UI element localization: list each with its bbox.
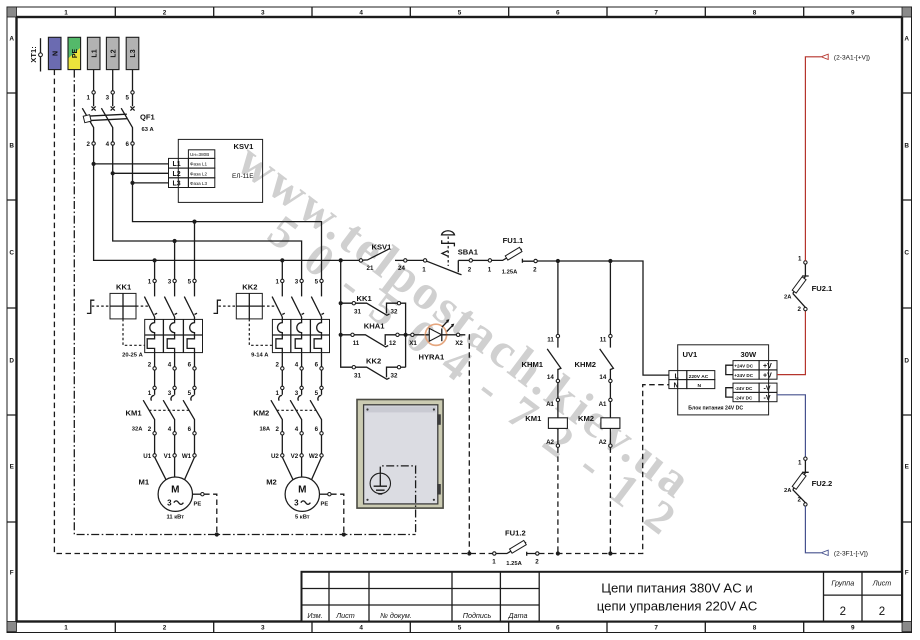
- svg-text:1: 1: [64, 625, 68, 632]
- svg-text:+24V DC: +24V DC: [734, 373, 753, 378]
- svg-text:M2: M2: [266, 478, 277, 487]
- svg-text:HYRA1: HYRA1: [419, 352, 446, 361]
- frame zone dividers bottom band: [115, 622, 803, 633]
- svg-text:4: 4: [295, 426, 299, 433]
- svg-text:D: D: [9, 358, 14, 365]
- KK1 trip lever symbol: [87, 300, 149, 313]
- fuse FU2.2: [784, 457, 832, 506]
- relay contact KHA1 11-12: [351, 294, 411, 366]
- wire QF1 pole2 to KSV1 L2 and L2 bus: [113, 145, 302, 280]
- svg-text:4: 4: [359, 10, 363, 17]
- svg-text:2A: 2A: [784, 294, 792, 300]
- svg-text:L1: L1: [173, 161, 181, 168]
- svg-text:30W: 30W: [741, 350, 757, 359]
- relay contact KHM2 11-14: [575, 263, 614, 382]
- svg-text:L3: L3: [130, 49, 137, 57]
- svg-text:1: 1: [798, 256, 802, 263]
- svg-text:1.25A: 1.25A: [506, 561, 522, 567]
- svg-text:V2: V2: [291, 453, 299, 460]
- svg-text:KSV1: KSV1: [234, 142, 255, 151]
- svg-text:11 кВт: 11 кВт: [167, 515, 185, 521]
- frame zone letters right: [904, 36, 909, 577]
- svg-text:63 А: 63 А: [142, 127, 155, 133]
- svg-text:E: E: [10, 464, 15, 471]
- svg-text:5: 5: [188, 390, 192, 397]
- svg-text:7: 7: [654, 10, 658, 17]
- circuit breaker QF1: [82, 91, 155, 148]
- motor M1 PE terminal: [193, 493, 219, 537]
- junction dots on QF1 poles at KSV1 taps: [92, 162, 135, 185]
- svg-text:2: 2: [468, 266, 472, 273]
- svg-text:Подпись: Подпись: [463, 611, 492, 620]
- svg-text:Лист: Лист: [872, 579, 892, 588]
- svg-text:KHA1: KHA1: [364, 321, 385, 330]
- wire L1 from terminal to QF1: [93, 70, 95, 91]
- svg-text:12: 12: [389, 340, 396, 347]
- svg-text:F: F: [905, 570, 909, 577]
- svg-text:1: 1: [275, 278, 279, 285]
- junction dots on N bus: [467, 551, 612, 555]
- voltage relay KSV1 box: [169, 139, 263, 202]
- relay contact KK2 31-32: [352, 366, 406, 380]
- svg-text:1: 1: [64, 10, 68, 17]
- KK1 reference label: [116, 282, 132, 291]
- svg-text:M1: M1: [139, 478, 150, 487]
- svg-text:PE: PE: [72, 49, 79, 59]
- svg-text:FU1.2: FU1.2: [505, 528, 526, 537]
- contactor KM2: [253, 386, 323, 454]
- wire lamp branch left bus: [341, 260, 352, 367]
- svg-text:KK1: KK1: [357, 294, 373, 303]
- svg-text:2A: 2A: [784, 488, 792, 494]
- wire PE dash-dot vertical and bottom bus: [74, 70, 415, 535]
- terminal L1: [87, 37, 100, 69]
- watermark line 2: [259, 205, 703, 557]
- contactor coil KM1: [525, 383, 567, 554]
- svg-text:KHM2: KHM2: [575, 360, 597, 369]
- svg-text:5: 5: [188, 278, 192, 285]
- svg-text:14: 14: [599, 374, 606, 381]
- svg-text:5: 5: [458, 625, 462, 632]
- svg-text:X2: X2: [455, 340, 463, 347]
- wire QF1 pole3 to KSV1 L3 and L3 bus: [133, 145, 322, 280]
- svg-text:31: 31: [354, 308, 361, 315]
- terminal N: [48, 37, 61, 69]
- svg-text:6: 6: [556, 10, 560, 17]
- frame zone letters left: [9, 36, 14, 577]
- svg-text:3: 3: [168, 278, 172, 285]
- power supply UV1: [669, 345, 777, 415]
- cabinet earth symbol: [370, 473, 390, 494]
- svg-text:11: 11: [547, 336, 554, 343]
- svg-text:18A: 18A: [259, 426, 270, 432]
- svg-text:32A: 32A: [132, 426, 143, 432]
- svg-text:B: B: [904, 143, 909, 150]
- svg-text:1: 1: [798, 459, 802, 466]
- svg-text:-V: -V: [764, 395, 771, 402]
- svg-text:2: 2: [798, 306, 802, 313]
- svg-text:L3: L3: [173, 181, 181, 188]
- svg-text:1: 1: [87, 95, 91, 102]
- terminal L3: [126, 37, 139, 69]
- svg-text:C: C: [904, 250, 909, 257]
- svg-text:X1: X1: [409, 340, 417, 347]
- svg-text:3: 3: [168, 390, 172, 397]
- svg-text:№ докум.: № докум.: [380, 611, 412, 620]
- title block document title: [597, 581, 758, 614]
- svg-text:A1: A1: [599, 401, 607, 408]
- svg-text:SBA1: SBA1: [458, 248, 479, 257]
- svg-text:KHM1: KHM1: [522, 360, 544, 369]
- svg-text:6: 6: [556, 625, 560, 632]
- terminal PE: [68, 37, 81, 69]
- svg-text:1.25A: 1.25A: [502, 270, 518, 276]
- svg-text:1: 1: [275, 390, 279, 397]
- svg-text:KM1: KM1: [525, 414, 542, 423]
- svg-text:W1: W1: [182, 453, 192, 460]
- svg-text:5: 5: [315, 278, 319, 285]
- pushbutton SBA1: [407, 231, 479, 275]
- svg-text:F: F: [10, 570, 14, 577]
- svg-text:3: 3: [167, 499, 172, 508]
- svg-text:5 кВт: 5 кВт: [295, 515, 310, 521]
- svg-text:11: 11: [353, 340, 360, 347]
- svg-text:6: 6: [315, 426, 319, 433]
- svg-text:2: 2: [275, 362, 279, 369]
- title block sheet group cells: [831, 579, 891, 619]
- svg-text:-24V DC: -24V DC: [735, 395, 753, 400]
- junction dots on control bus: [556, 259, 613, 263]
- wire FU2.1 to sheet reference red: [805, 57, 821, 261]
- svg-text:FU2.1: FU2.1: [812, 284, 833, 293]
- wire X2 to N bus dashed: [460, 335, 470, 554]
- svg-text:1: 1: [488, 266, 492, 273]
- thermal breaker KK1: [122, 278, 202, 386]
- svg-text:KK2: KK2: [366, 357, 381, 366]
- svg-text:Фаза L1: Фаза L1: [190, 162, 207, 167]
- svg-text:цепи управления 220V AC: цепи управления 220V AC: [597, 599, 758, 614]
- svg-text:KK1: KK1: [116, 282, 132, 291]
- sheet reference arrow -V: [821, 550, 868, 557]
- KK1 cross box symbol: [110, 293, 145, 345]
- KK2 cross box symbol: [236, 293, 272, 345]
- svg-text:N: N: [698, 383, 702, 389]
- svg-text:8: 8: [753, 10, 757, 17]
- svg-text:3: 3: [295, 390, 299, 397]
- svg-text:21: 21: [367, 265, 374, 272]
- wire -V to FU2.2 blue: [777, 395, 805, 457]
- svg-text:20-25 А: 20-25 А: [122, 353, 143, 359]
- motor M1: [139, 453, 197, 521]
- svg-text:3: 3: [294, 499, 299, 508]
- svg-text:4: 4: [168, 362, 172, 369]
- svg-text:FU2.2: FU2.2: [812, 479, 833, 488]
- svg-text:3: 3: [261, 625, 265, 632]
- thermal breaker KK2: [251, 278, 329, 386]
- svg-text:KSV1: KSV1: [372, 243, 393, 252]
- svg-text:M: M: [171, 484, 179, 495]
- svg-text:4: 4: [168, 426, 172, 433]
- svg-text:-24V DC: -24V DC: [735, 386, 753, 391]
- svg-text:7: 7: [654, 625, 658, 632]
- svg-text:B: B: [9, 143, 14, 150]
- svg-text:+V: +V: [763, 363, 772, 370]
- svg-text:A: A: [9, 36, 14, 43]
- svg-text:2: 2: [840, 606, 846, 618]
- svg-text:(2-3F1-[-V]): (2-3F1-[-V]): [834, 551, 868, 558]
- svg-text:L1: L1: [91, 49, 98, 57]
- fuse FU1.2: [492, 528, 539, 567]
- svg-text:32: 32: [391, 308, 398, 315]
- contactor KM1: [126, 386, 197, 454]
- svg-text:14: 14: [547, 374, 554, 381]
- svg-text:(2-3A1-[+V]): (2-3A1-[+V]): [834, 55, 870, 62]
- svg-text:M: M: [298, 484, 306, 495]
- terminal L2: [106, 37, 119, 69]
- svg-text:V1: V1: [164, 453, 172, 460]
- frame zone dividers left band: [7, 93, 17, 522]
- svg-text:Uн=380В: Uн=380В: [190, 152, 209, 157]
- motor M2 PE terminal: [320, 493, 346, 537]
- svg-text:1: 1: [492, 559, 496, 566]
- svg-text:ЕЛ-11Е: ЕЛ-11Е: [232, 173, 253, 180]
- svg-text:E: E: [905, 464, 910, 471]
- svg-text:Изм.: Изм.: [307, 611, 322, 620]
- svg-text:W2: W2: [309, 453, 319, 460]
- svg-text:A: A: [904, 36, 909, 43]
- svg-text:-V: -V: [764, 386, 771, 393]
- wire drops from buses to KK1 poles: [155, 222, 195, 280]
- svg-text:9-14 А: 9-14 А: [251, 353, 269, 359]
- svg-text:3: 3: [261, 10, 265, 17]
- wire +V to FU2.1 red: [777, 311, 805, 375]
- frame zone dividers top band: [115, 7, 803, 17]
- svg-text:D: D: [904, 358, 909, 365]
- svg-text:2: 2: [148, 362, 152, 369]
- svg-text:Цепи питания 380V AC и: Цепи питания 380V AC и: [601, 581, 753, 596]
- svg-text:32: 32: [391, 372, 398, 379]
- svg-text:PE: PE: [194, 501, 202, 507]
- svg-text:5: 5: [315, 390, 319, 397]
- junction dots lamp branch: [339, 301, 408, 337]
- svg-text:N: N: [674, 382, 679, 389]
- svg-text:Группа: Группа: [831, 579, 854, 588]
- svg-text:Дата: Дата: [508, 611, 528, 620]
- fuse FU2.1: [784, 256, 833, 313]
- svg-text:KM2: KM2: [253, 408, 269, 417]
- svg-text:8: 8: [753, 625, 757, 632]
- frame zone numbers bottom: [64, 625, 855, 632]
- svg-text:2: 2: [163, 625, 167, 632]
- title block frame: [302, 572, 903, 622]
- svg-text:A2: A2: [599, 439, 607, 446]
- svg-text:2: 2: [535, 559, 539, 566]
- svg-text:UV1: UV1: [683, 350, 699, 359]
- svg-text:PE: PE: [321, 501, 329, 507]
- svg-text:U1: U1: [143, 453, 151, 460]
- svg-text:2: 2: [533, 266, 537, 273]
- wire QF1 pole1 to KSV1 L1 and L1 bus: [94, 145, 360, 260]
- svg-text:KM2: KM2: [578, 414, 594, 423]
- svg-text:2: 2: [87, 141, 91, 148]
- contactor coil KM2: [578, 383, 620, 554]
- svg-text:A2: A2: [546, 439, 554, 446]
- wire L3 from terminal to QF1: [132, 70, 134, 91]
- terminal strip label XT1: [29, 38, 43, 71]
- svg-text:KK2: KK2: [242, 282, 257, 291]
- svg-text:2: 2: [148, 426, 152, 433]
- svg-text:+V: +V: [763, 372, 772, 379]
- svg-text:+24V DC: +24V DC: [734, 364, 753, 369]
- title block revision row labels: [307, 611, 527, 620]
- svg-text:Лист: Лист: [335, 611, 355, 620]
- svg-text:1: 1: [148, 390, 152, 397]
- svg-text:L2: L2: [110, 49, 117, 57]
- frame zone numbers top: [64, 10, 855, 17]
- watermark line 1: [227, 132, 703, 510]
- relay contact KK1 31-32: [352, 302, 406, 368]
- svg-text:3: 3: [295, 278, 299, 285]
- relay contact KHM1 11-14: [522, 263, 561, 382]
- svg-text:2: 2: [163, 10, 167, 17]
- KK2 trip lever symbol: [214, 300, 277, 313]
- svg-text:5: 5: [125, 95, 129, 102]
- svg-text:N: N: [52, 51, 59, 56]
- svg-text:L2: L2: [173, 171, 181, 178]
- svg-text:6: 6: [188, 362, 192, 369]
- wire FU2.2 to sheet reference blue: [805, 506, 821, 553]
- svg-text:2: 2: [275, 426, 279, 433]
- svg-text:3: 3: [106, 95, 110, 102]
- svg-text:Фаза L2: Фаза L2: [190, 171, 207, 176]
- svg-text:5: 5: [458, 10, 462, 17]
- svg-text:220V AC: 220V AC: [689, 374, 709, 380]
- svg-text:4: 4: [359, 625, 363, 632]
- svg-text:Блок питания 24V DC: Блок питания 24V DC: [688, 406, 743, 412]
- fuse FU1.1: [473, 236, 669, 375]
- svg-text:9: 9: [851, 625, 855, 632]
- svg-text:Фаза L3: Фаза L3: [190, 181, 207, 186]
- wire N bus to UV1: [539, 385, 669, 554]
- svg-text:6: 6: [125, 141, 129, 148]
- svg-text:6: 6: [188, 426, 192, 433]
- svg-text:C: C: [9, 250, 14, 257]
- svg-text:A1: A1: [546, 401, 554, 408]
- svg-text:2: 2: [798, 497, 802, 504]
- frame zone dividers right band: [902, 93, 912, 522]
- motor M2: [266, 453, 323, 521]
- svg-text:2: 2: [879, 606, 885, 618]
- svg-text:KM1: KM1: [126, 408, 143, 417]
- svg-text:1: 1: [148, 278, 152, 285]
- junction dots on distribution buses: [153, 220, 343, 263]
- svg-text:FU1.1: FU1.1: [503, 236, 524, 245]
- wire L2 from terminal to QF1: [112, 70, 114, 91]
- sheet reference arrow +V: [821, 54, 870, 61]
- svg-text:4: 4: [106, 141, 110, 148]
- svg-text:6: 6: [315, 362, 319, 369]
- svg-text:11: 11: [600, 336, 607, 343]
- svg-text:U2: U2: [271, 453, 279, 460]
- wire N dashed vertical and bottom bus: [54, 70, 492, 554]
- enclosure cabinet drawing: [357, 400, 443, 509]
- svg-text:4: 4: [295, 362, 299, 369]
- svg-text:XT1:: XT1:: [29, 46, 38, 62]
- svg-text:9: 9: [851, 10, 855, 17]
- cabinet earth bonding dash-dot wire: [380, 466, 415, 535]
- svg-text:31: 31: [354, 372, 361, 379]
- svg-text:QF1: QF1: [140, 113, 156, 122]
- KK2 reference label: [242, 282, 257, 291]
- indicator lamp HYRA1: [409, 319, 463, 361]
- svg-text:24: 24: [398, 265, 405, 272]
- svg-text:1: 1: [422, 266, 426, 273]
- relay contact KSV1 21-24: [359, 243, 407, 273]
- wire drops from buses to KK2 poles: [281, 260, 283, 279]
